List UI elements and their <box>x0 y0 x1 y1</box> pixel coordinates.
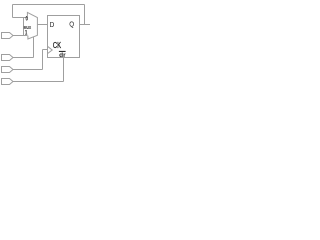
wire Qbar vertical <box>63 58 65 82</box>
mux M1 trapezoid outline <box>27 12 37 39</box>
svg-text:CK: CK <box>53 40 61 51</box>
wire port1 to mux input 1 <box>13 35 27 37</box>
input port P4 <box>2 79 14 85</box>
flip-flop clock edge triangle <box>48 46 53 53</box>
wire Q output <box>80 24 91 26</box>
wire feedback top <box>13 4 85 6</box>
input port P1 <box>2 33 14 39</box>
wire feedback left vertical <box>12 5 14 18</box>
wire clock into CK <box>43 49 48 51</box>
wire port4 horizontal <box>13 81 64 83</box>
wire mux output to D <box>37 24 47 26</box>
flip-flop U1 box <box>48 16 80 58</box>
wire clock vertical <box>42 50 44 70</box>
svg-text:MUX: MUX <box>24 24 32 30</box>
wire port3 horizontal <box>13 69 43 71</box>
wire port2 to select <box>13 57 34 59</box>
svg-text:D: D <box>50 22 55 29</box>
wire joining mux inputs vertical <box>23 18 25 36</box>
svg-text:Q: Q <box>69 21 74 29</box>
wire mux select vertical <box>33 37 35 58</box>
wire mux input 0 <box>13 17 28 19</box>
svg-text:1: 1 <box>25 30 28 37</box>
wire feedback right vertical <box>84 5 86 25</box>
flip-flop Qbar overline <box>59 50 66 52</box>
input port P3 <box>2 67 14 73</box>
svg-text:0: 0 <box>25 16 28 23</box>
input port P2 <box>2 55 14 61</box>
svg-text:dr: dr <box>59 52 66 59</box>
